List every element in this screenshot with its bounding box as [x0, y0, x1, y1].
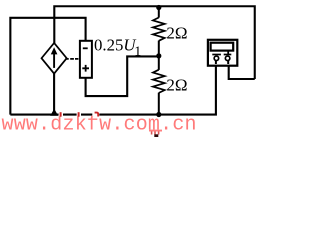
voltmeter left terminal post	[214, 56, 219, 61]
voltmeter right terminal bar	[224, 54, 232, 56]
watermark second row partial glyph strokes	[151, 132, 153, 135]
wire: dependent current source to bottom rail	[53, 74, 55, 115]
svg-text:www.dzkfw.com.cn: www.dzkfw.com.cn	[2, 114, 197, 137]
svg-text:2Ω: 2Ω	[166, 76, 187, 95]
voltmeter body	[208, 40, 237, 66]
polarity minus sign	[83, 47, 88, 49]
junction node between resistors	[156, 53, 161, 58]
junction node on bottom rail at resistor branch	[156, 112, 161, 117]
watermark ascender break in bottom wire at letter d	[59, 113, 63, 117]
resistor R2 zigzag	[153, 70, 165, 93]
watermark second row partial glyph bar	[149, 130, 162, 132]
wire: top rail from node above current source to top-right corner down to voltmeter link	[54, 6, 254, 79]
junction node on bottom rail at current source (triangle blob)	[50, 109, 58, 116]
voltmeter right terminal stem	[227, 60, 229, 64]
wire: link from right rail to voltmeter + terminal	[229, 61, 255, 79]
svg-text:2Ω: 2Ω	[166, 24, 187, 43]
polarity plus sign	[82, 65, 89, 72]
controlled voltage source box	[80, 41, 92, 78]
voltmeter right terminal riser	[227, 50, 229, 55]
wire: resistor branch middle section	[158, 41, 160, 70]
voltmeter right terminal post	[225, 56, 230, 61]
voltmeter left terminal stem	[215, 60, 217, 64]
voltmeter display window	[211, 43, 234, 51]
watermark second row partial glyph base	[154, 134, 158, 137]
watermark ascender break in bottom wire at letter f	[92, 113, 99, 117]
wire: resistor branch top stub	[158, 6, 160, 17]
wire: controlled voltage source bottom link to mid node	[86, 56, 159, 96]
watermark ascender break in bottom wire at letter k	[77, 113, 81, 117]
resistor R1 zigzag	[153, 18, 165, 41]
wire: bottom rail up to voltmeter - terminal	[10, 61, 216, 115]
wire: inner top rail and left rail	[10, 18, 85, 115]
junction node on top rail	[156, 5, 161, 10]
dependent current source arrow shaft	[53, 52, 55, 68]
dependent current source arrow head	[51, 47, 58, 54]
wire: resistor branch bottom stub	[158, 93, 160, 116]
voltmeter left terminal bar	[212, 54, 221, 56]
dashed control link between sources	[65, 58, 78, 60]
dependent current source diamond	[42, 43, 67, 74]
svg-text:0.25U1: 0.25U1	[94, 35, 141, 59]
